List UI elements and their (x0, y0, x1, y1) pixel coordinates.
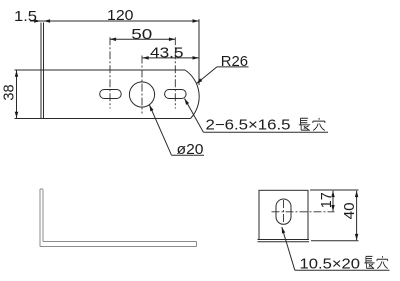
centerline right slot / 50-dim extension (174, 37, 176, 108)
end view slot 10.5x20 (276, 199, 291, 224)
extension line top right (310, 189, 359, 191)
svg-text:R26: R26 (221, 54, 248, 70)
svg-text:38: 38 (2, 84, 18, 100)
svg-text:120: 120 (107, 8, 134, 24)
side view: right end cap (196, 242, 198, 247)
leader slot label 2-6.5x16.5 (203, 131, 328, 133)
dim 38 line with arrows (16, 71, 18, 119)
dim line continuation between arrows (41, 20, 45, 22)
dim 43.5 line with arrows (142, 57, 198, 59)
end view slot horizontal centerline (272, 211, 335, 213)
label 長穴 (kanji drawn as strokes) (299, 118, 325, 131)
extension line bottom right (311, 240, 359, 242)
dim 40 line with arrows (356, 191, 358, 240)
centerline circle / 43.5-dim extension (141, 56, 143, 114)
svg-text:1.5: 1.5 (14, 9, 37, 25)
side view: top cap (40, 188, 43, 190)
slotted hole right (6.5x16.5) (165, 90, 187, 99)
side view: inner left edge (42, 190, 44, 242)
leader R26 (217, 66, 249, 68)
svg-text:43.5: 43.5 (150, 46, 184, 62)
dim 120 line with arrows (44, 20, 199, 22)
leader slot label 10.5x20 (295, 269, 390, 271)
slotted hole left (6.5x16.5) (100, 90, 122, 99)
dim 1.5 line + right-pointing arrow (30, 20, 41, 22)
label 長穴 (kanji drawn as strokes) (364, 256, 387, 269)
top view: bracket plan outline (15, 69, 186, 71)
side view: bottom inner (top) edge (43, 241, 197, 243)
svg-text:50: 50 (131, 27, 152, 43)
extension line at right tip x=199 (198, 19, 200, 85)
R26 rounded end arc (185, 70, 199, 119)
hole circle ø20 (129, 82, 154, 107)
centerline left slot / 50-dim extension (109, 37, 111, 108)
svg-text:ø20: ø20 (177, 142, 204, 158)
svg-text:40: 40 (342, 202, 358, 219)
bent flange left edge (inner), also 120-dim extension (43, 23, 45, 119)
side view: L angle outer left edge (39, 189, 41, 247)
dim 17 line with arrows (332, 191, 334, 212)
end view: base plate edge-on (double line) (258, 239, 310, 241)
svg-text:2−6.5×16.5: 2−6.5×16.5 (206, 117, 291, 133)
dim 50 line with arrows (110, 38, 175, 40)
bent flange left edge (outer), also 1.5-dim extension (40, 23, 42, 119)
svg-text:10.5×20: 10.5×20 (300, 256, 361, 272)
leader ø20 (172, 154, 205, 156)
side view: bottom outer edge (40, 246, 197, 248)
end view slot vertical centerline (283, 200, 285, 225)
svg-text:17: 17 (319, 192, 335, 208)
end view: flange plate square (259, 190, 308, 239)
